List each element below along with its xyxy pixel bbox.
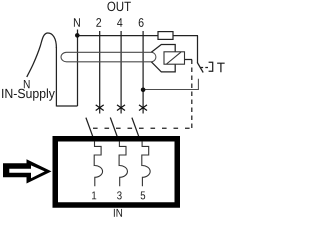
- wire resistor feed horizontal: [77, 35, 198, 37]
- breaker pole 1: [94, 141, 102, 186]
- breaker enclosure box: [55, 139, 177, 205]
- wire cable vertical: [55, 47, 57, 107]
- dashed trip linkage vertical: [191, 60, 193, 129]
- label 6: [139, 18, 144, 27]
- label OUT: [107, 2, 130, 12]
- label N supply: [24, 80, 30, 88]
- terminal cross phase 6: [139, 105, 147, 111]
- node test junction dot: [141, 88, 146, 93]
- wire neutral vertical: [77, 30, 79, 107]
- wire test circuit from junction: [143, 79, 198, 90]
- current transformer toroid: [61, 52, 151, 62]
- label 1: [92, 191, 96, 199]
- wire phase 4 vertical: [120, 31, 122, 114]
- label 4: [117, 18, 122, 27]
- label N top: [74, 18, 80, 27]
- toroid right cap: [151, 52, 156, 62]
- trip coil box: [164, 52, 185, 64]
- label IN: [114, 209, 122, 217]
- label 5: [141, 191, 146, 199]
- wire bottom horizontal to N line: [56, 105, 77, 107]
- breaker pole 3: [119, 141, 127, 186]
- terminal cross phase 2: [96, 105, 104, 111]
- label 2: [96, 18, 101, 27]
- test button linkage dashes: [200, 67, 208, 69]
- contact blade pole 3: [132, 118, 139, 137]
- terminal cross phase 4: [117, 105, 125, 111]
- wire IN-supply cable curve: [27, 33, 57, 77]
- label IN-Supply: [2, 88, 55, 100]
- arrow feed indicator: [3, 159, 52, 183]
- pole symbols: [94, 141, 150, 186]
- wire phase 6 vertical: [142, 31, 144, 114]
- wire phase 2 vertical: [99, 31, 101, 114]
- label T: [217, 63, 225, 73]
- label 3: [117, 191, 122, 199]
- test button bracket: [209, 62, 213, 71]
- breaker pole 5: [142, 141, 150, 186]
- dashed trip linkage horizontal: [93, 127, 192, 129]
- contact blade pole 2: [110, 118, 117, 137]
- yoke claw to trip coil: [151, 45, 175, 72]
- trip coil stub: [185, 59, 193, 61]
- test switch blade: [197, 63, 203, 73]
- contact blade pole 1: [86, 118, 93, 137]
- node N junction dot: [75, 33, 80, 38]
- resistor: [158, 32, 173, 40]
- wire right vertical to test switch: [197, 36, 199, 63]
